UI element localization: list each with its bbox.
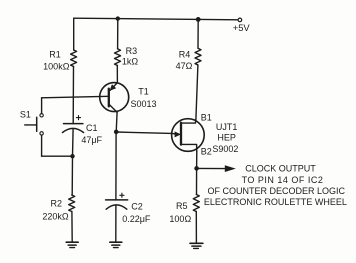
- label UJT1: [216, 122, 238, 132]
- wire: R1 to C1, crosses base wire: [72, 67, 74, 124]
- label S1: [20, 110, 31, 120]
- junction: B2 / R5 / output node: [194, 166, 199, 171]
- label C1: [86, 123, 98, 133]
- resistor R4: [195, 48, 201, 65]
- wire: R5 to ground: [195, 212, 197, 244]
- terminal: +5V: [238, 18, 242, 22]
- label R4: [179, 49, 191, 59]
- label 100kΩ: [43, 62, 70, 72]
- capacitor C2: [106, 193, 128, 209]
- svg-text:S0013: S0013: [130, 99, 156, 109]
- label 47µF: [81, 135, 102, 145]
- wire: rail down to R1: [73, 18, 75, 50]
- wire: junction down to C2: [115, 132, 117, 200]
- label S9002: [212, 144, 238, 154]
- label +5V: [233, 22, 251, 33]
- junction: C1 / S1 / R2 node: [70, 154, 74, 158]
- junction: rail to R4 column: [196, 17, 201, 22]
- label OF COUNTER DECODER LOGIC: [208, 186, 346, 196]
- svg-text:ELECTRONIC ROULETTE WHEEL: ELECTRONIC ROULETTE WHEEL: [204, 197, 347, 207]
- label 0.22µF: [122, 214, 151, 224]
- label T1: [138, 86, 149, 96]
- label R2: [51, 198, 63, 208]
- svg-text:47μF: 47μF: [81, 135, 102, 145]
- resistor R2: [69, 195, 75, 212]
- svg-text:OF COUNTER DECODER LOGIC: OF COUNTER DECODER LOGIC: [208, 186, 346, 196]
- svg-text:R5: R5: [176, 201, 188, 211]
- svg-text:R2: R2: [51, 198, 63, 208]
- wire: R4 down to UJT base-one: [196, 65, 198, 119]
- svg-text:B2: B2: [201, 146, 212, 156]
- svg-text:T1: T1: [138, 86, 149, 96]
- svg-text:TO PIN 14 OF IC2: TO PIN 14 OF IC2: [242, 175, 324, 185]
- svg-text:0.22μF: 0.22μF: [122, 214, 151, 224]
- svg-text:CLOCK OUTPUT: CLOCK OUTPUT: [245, 164, 316, 174]
- svg-text:1kΩ: 1kΩ: [122, 56, 139, 66]
- label 220kΩ: [42, 211, 69, 221]
- label 47Ω: [176, 61, 193, 71]
- label B1: [201, 112, 212, 122]
- label 1kΩ: [122, 56, 139, 66]
- label TO PIN 14 OF IC2: [242, 175, 324, 185]
- resistor R3: [115, 49, 121, 66]
- label R1: [49, 50, 61, 60]
- label CLOCK OUTPUT: [245, 164, 316, 174]
- wire: +5V supply rail: [74, 18, 238, 20]
- svg-text:R4: R4: [179, 49, 191, 59]
- svg-text:C1: C1: [86, 123, 98, 133]
- label S0013: [130, 99, 156, 109]
- ground (below R2): [66, 242, 78, 247]
- wire: UJT base-two to junction: [196, 151, 198, 168]
- svg-text:S9002: S9002: [212, 144, 238, 154]
- label ELECTRONIC ROULETTE WHEEL: [204, 197, 347, 207]
- svg-text:47Ω: 47Ω: [176, 61, 193, 71]
- wire: rail down to R3: [117, 19, 119, 49]
- label HEP: [217, 132, 236, 142]
- svg-text:R3: R3: [126, 46, 138, 56]
- label R3: [126, 46, 138, 56]
- svg-text:HEP: HEP: [217, 132, 236, 142]
- svg-text:100kΩ: 100kΩ: [43, 62, 70, 72]
- svg-text:R1: R1: [49, 50, 61, 60]
- svg-text:UJT1: UJT1: [216, 122, 238, 132]
- transistor T1 (PNP): [100, 83, 129, 113]
- label 100Ω: [169, 214, 191, 224]
- svg-text:+5V: +5V: [233, 22, 251, 33]
- svg-text:B1: B1: [201, 112, 212, 122]
- transistor UJT1: [172, 119, 205, 152]
- wire: R3 to T1 emitter: [116, 66, 118, 83]
- wire: output lead: [197, 167, 226, 169]
- wire: C1 to junction: [72, 129, 75, 156]
- label C2: [131, 202, 143, 212]
- wire: rail down to R4: [197, 19, 199, 48]
- junction: rail to R3 column: [116, 16, 120, 20]
- svg-text:220kΩ: 220kΩ: [42, 211, 69, 221]
- resistor R5: [193, 195, 199, 212]
- junction: collector / C2 / UJT emitter node: [114, 130, 119, 135]
- wire: T1 collector to junction: [115, 112, 118, 132]
- wire: C2 to ground: [115, 206, 117, 243]
- wire: junction to UJT emitter: [116, 132, 172, 133]
- label R5: [176, 201, 188, 211]
- wire: S1 bottom to junction: [42, 155, 73, 157]
- switch S1: [25, 98, 44, 156]
- svg-text:S1: S1: [20, 110, 31, 120]
- wire: R2 to ground: [71, 212, 73, 243]
- svg-text:C2: C2: [131, 202, 143, 212]
- wire: junction down to R5: [196, 168, 198, 194]
- capacitor C1: [63, 116, 84, 133]
- ground (below R5): [190, 243, 203, 248]
- resistor R1: [71, 50, 77, 67]
- svg-text:100Ω: 100Ω: [169, 214, 191, 224]
- ground (below C2): [110, 242, 122, 247]
- label B2: [201, 146, 212, 156]
- wire: junction down to R2: [71, 156, 73, 195]
- arrowhead: clock output: [225, 165, 236, 172]
- wire: base node (S1 corner to T1 base): [42, 96, 109, 98]
